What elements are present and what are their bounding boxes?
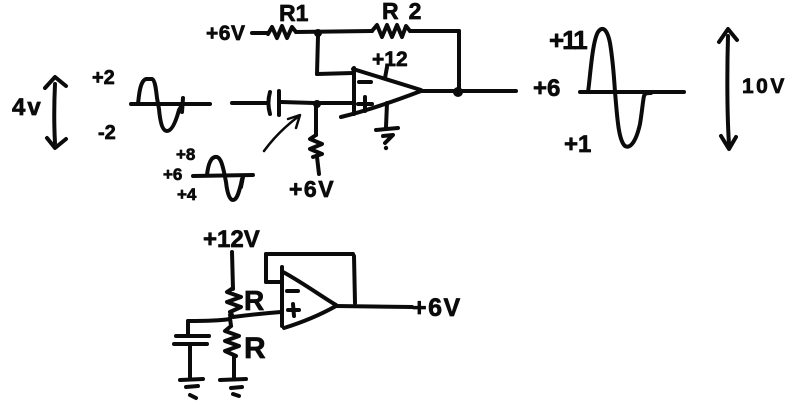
feedback vertical wire — [457, 31, 461, 90]
U2 non-inverting pin marker (+) — [288, 304, 299, 316]
U1 output wire — [421, 89, 516, 93]
svg-text:+6V: +6V — [289, 176, 335, 202]
svg-text:+6V: +6V — [206, 22, 245, 45]
capacitor C1 — [269, 91, 280, 115]
node A junction dot — [314, 29, 322, 37]
wire R2 to feedback corner — [410, 29, 459, 33]
svg-text:+4: +4 — [177, 185, 197, 204]
biased input waveform — [193, 157, 253, 200]
annotation arrow to node B — [264, 115, 300, 151]
wire C1 to node B — [281, 102, 314, 103]
wire node A down to inverting input — [317, 36, 353, 74]
svg-text:+8: +8 — [176, 145, 195, 164]
svg-text:+2: +2 — [92, 67, 115, 89]
resistor R2 — [372, 25, 410, 37]
wire bottom R to ground — [232, 356, 236, 377]
wire node C to U2 non-inverting input — [233, 312, 281, 317]
node C junction — [228, 312, 234, 318]
U2 feedback wire — [266, 254, 355, 303]
resistor R (bottom of divider) — [225, 326, 239, 356]
resistor R1 — [268, 26, 296, 38]
wire +6V to R1 — [252, 31, 268, 35]
wire R1 to node A — [296, 31, 372, 32]
svg-text:10V: 10V — [742, 75, 787, 98]
svg-text:+12: +12 — [372, 48, 408, 71]
svg-text:+12V: +12V — [203, 226, 260, 253]
capacitor C2 — [174, 336, 209, 344]
input amplitude arrow — [45, 77, 66, 148]
svg-text:4v: 4v — [12, 94, 43, 121]
U1 non-inverting pin marker (+) — [358, 97, 372, 111]
ground under C2 — [180, 379, 203, 398]
wire node B down to bias resistor — [314, 107, 318, 135]
svg-text:+6: +6 — [163, 165, 182, 184]
output node dot — [453, 87, 463, 97]
svg-text:+6: +6 — [533, 75, 560, 102]
svg-text:-2: -2 — [98, 122, 116, 144]
output amplitude arrow (10V) — [719, 29, 737, 149]
svg-text:R: R — [244, 332, 266, 365]
input waveform — [131, 79, 210, 131]
svg-text:+6V: +6V — [412, 294, 462, 322]
output waveform — [580, 29, 684, 147]
svg-text:R1: R1 — [279, 0, 309, 26]
wire bias resistor down — [317, 157, 319, 174]
svg-text:+1: +1 — [564, 131, 591, 158]
svg-text:R: R — [244, 285, 264, 316]
wire C2 to ground — [188, 346, 192, 377]
svg-text:+11: +11 — [549, 25, 587, 55]
wire node C to bottom R — [230, 318, 231, 326]
svg-text:R2: R2 — [382, 0, 431, 24]
U1 ground stub wire — [386, 103, 387, 127]
bias resistor R3 (vertical) — [310, 135, 322, 157]
U1 inverting pin marker (-) — [359, 80, 371, 84]
ground under U1 — [376, 128, 398, 150]
op-amp U1 — [341, 68, 421, 117]
U1 supply stub wire — [385, 67, 387, 78]
wire +12V to divider — [232, 252, 233, 289]
U2 inverting pin marker (-) — [287, 289, 298, 293]
resistor R (top of divider) — [227, 288, 241, 312]
op-amp U2 — [282, 267, 336, 328]
wire input to C1 — [232, 101, 268, 105]
U2 output wire — [336, 306, 412, 307]
wire node B to non-inverting input — [321, 101, 353, 105]
wire node C to capacitor — [188, 319, 230, 334]
node B junction dot — [313, 100, 321, 108]
ground under divider — [220, 379, 246, 396]
